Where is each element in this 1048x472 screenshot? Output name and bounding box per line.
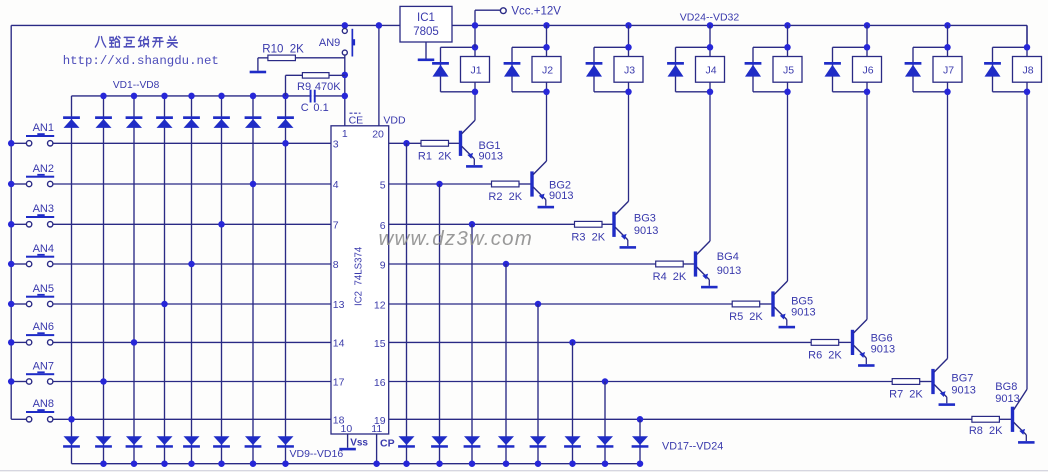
svg-text:R7 2K: R7 2K [889, 389, 923, 401]
svg-text:9013: 9013 [995, 393, 1019, 405]
svg-text:470K: 470K [315, 81, 341, 93]
svg-text:J1: J1 [470, 65, 481, 77]
svg-text:16: 16 [374, 377, 386, 389]
svg-text:12: 12 [374, 300, 386, 312]
svg-text:J2: J2 [542, 65, 553, 77]
svg-text:17: 17 [333, 377, 345, 389]
svg-text:J8: J8 [1022, 65, 1033, 77]
svg-text:9013: 9013 [951, 385, 975, 397]
svg-text:http://xd.shangdu.net: http://xd.shangdu.net [63, 54, 219, 68]
svg-text:VD24--VD32: VD24--VD32 [680, 11, 740, 23]
svg-text:BG3: BG3 [634, 213, 656, 225]
svg-text:9013: 9013 [479, 150, 503, 162]
svg-text:20: 20 [372, 128, 384, 140]
svg-text:R9: R9 [297, 81, 311, 93]
svg-text:Vss: Vss [350, 437, 368, 448]
svg-text:R4 2K: R4 2K [653, 271, 687, 283]
svg-text:R10 2K: R10 2K [262, 44, 304, 56]
svg-text:IC1: IC1 [417, 12, 435, 24]
svg-text:R5 2K: R5 2K [729, 311, 763, 323]
svg-text:10: 10 [341, 423, 353, 435]
svg-text:8: 8 [333, 259, 339, 271]
svg-text:BG4: BG4 [717, 251, 739, 263]
svg-text:15: 15 [374, 338, 386, 350]
svg-text:CE: CE [349, 115, 364, 127]
svg-text:J5: J5 [783, 65, 794, 77]
svg-text:R3 2K: R3 2K [571, 232, 605, 244]
svg-text:J3: J3 [624, 65, 635, 77]
svg-text:AN5: AN5 [33, 283, 54, 295]
svg-text:CP: CP [380, 437, 395, 449]
svg-text:9013: 9013 [634, 225, 658, 237]
svg-text:R8 2K: R8 2K [969, 425, 1003, 437]
svg-text:9013: 9013 [791, 307, 815, 319]
svg-text:BG7: BG7 [951, 373, 973, 385]
svg-text:AN9: AN9 [319, 37, 340, 49]
svg-text:IC2 74LS374: IC2 74LS374 [354, 246, 365, 306]
svg-text:J4: J4 [705, 65, 716, 77]
svg-text:9013: 9013 [549, 190, 573, 202]
svg-text:www.dz3w.com: www.dz3w.com [379, 227, 534, 250]
svg-text:9013: 9013 [871, 344, 895, 356]
svg-text:R1 2K: R1 2K [418, 151, 452, 163]
svg-text:AN6: AN6 [33, 321, 54, 333]
svg-text:R2 2K: R2 2K [488, 191, 522, 203]
svg-text:AN7: AN7 [33, 360, 54, 372]
svg-text:4: 4 [333, 179, 339, 191]
svg-text:BG8: BG8 [995, 381, 1017, 393]
svg-text:9013: 9013 [717, 265, 741, 277]
svg-text:R6 2K: R6 2K [808, 350, 842, 362]
svg-text:J6: J6 [862, 65, 873, 77]
svg-text:1: 1 [342, 128, 348, 140]
svg-text:7: 7 [333, 220, 339, 232]
svg-text:BG6: BG6 [871, 332, 893, 344]
svg-text:AN8: AN8 [33, 398, 54, 410]
svg-text:VD9--VD16: VD9--VD16 [290, 448, 344, 460]
svg-text:Vcc.+12V: Vcc.+12V [511, 6, 561, 18]
svg-text:AN2: AN2 [33, 163, 54, 175]
svg-text:9: 9 [380, 260, 386, 272]
svg-text:BG5: BG5 [791, 295, 813, 307]
svg-text:VDD: VDD [383, 115, 406, 127]
svg-text:AN3: AN3 [33, 203, 54, 215]
svg-text:11: 11 [371, 423, 382, 435]
svg-text:0.1: 0.1 [313, 102, 328, 114]
svg-text:14: 14 [333, 338, 345, 350]
svg-text:J7: J7 [943, 65, 954, 77]
svg-text:VD17--VD24: VD17--VD24 [662, 441, 723, 453]
svg-text:13: 13 [333, 299, 345, 311]
svg-text:AN4: AN4 [33, 243, 54, 255]
svg-text:7805: 7805 [413, 26, 439, 38]
svg-text:AN1: AN1 [33, 122, 54, 134]
svg-text:VD1--VD8: VD1--VD8 [113, 80, 160, 91]
svg-text:3: 3 [333, 139, 339, 151]
svg-text:5: 5 [380, 180, 386, 192]
svg-text:C: C [301, 102, 309, 114]
